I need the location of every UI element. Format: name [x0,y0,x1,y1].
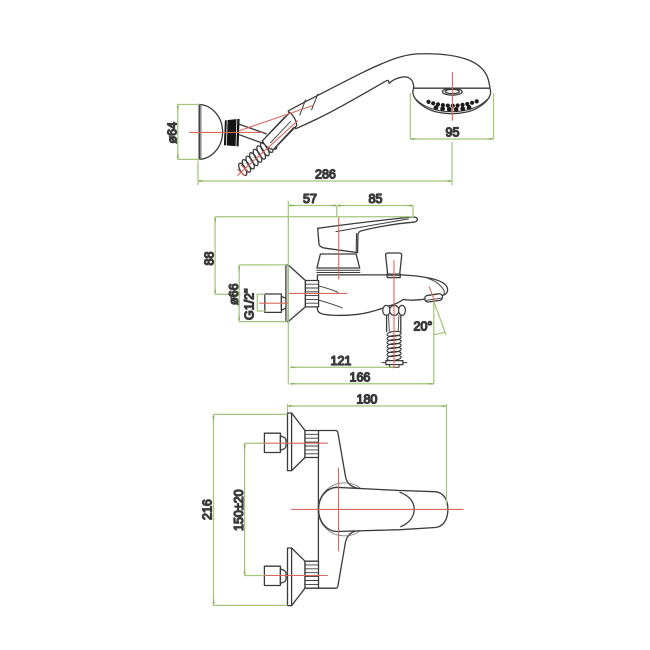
body trunk [318,431,380,589]
svg-text:166: 166 [350,371,371,385]
wall holder dome [199,105,222,160]
svg-text:85: 85 [369,192,383,206]
top check valve stub [264,433,286,452]
dimension 166 [291,383,432,385]
svg-text:150±20: 150±20 [232,489,246,531]
svg-text:ø64: ø64 [165,122,179,144]
20 degree angle [434,302,446,384]
dimension 88 [215,217,413,294]
cartridge axis [338,218,340,280]
conical hose nut [262,113,296,150]
handle neck in holder [240,124,267,143]
svg-text:ø66: ø66 [227,283,241,305]
bottom wall escutcheon [288,548,319,606]
shower handle and head outline [288,54,490,129]
head axis [451,73,453,121]
diverter knob [386,253,402,278]
dimension 216 [214,414,288,605]
svg-text:20°: 20° [414,320,433,334]
wall escutcheon (side) [286,265,319,322]
bottom inlet axis [260,575,327,577]
shower outlet hex nut [383,305,406,315]
body and spout [317,275,447,316]
svg-text:180: 180 [357,393,378,407]
cartridge collar [317,254,360,273]
bottom check valve stub [264,566,286,585]
head oval button [443,88,463,95]
lever tip divider [400,492,414,526]
svg-text:88: 88 [203,252,217,266]
aerator on spout tip [424,293,443,302]
G1/2 wall stub [265,294,286,312]
svg-text:57: 57 [303,192,317,206]
dimension 286 [198,143,452,185]
dimension ø66 [239,265,286,322]
top wall escutcheon [288,413,319,471]
red centerlines top view [190,73,453,176]
dimension 95 [410,94,493,140]
top inlet axis [260,442,327,444]
inlet axis [290,292,348,294]
svg-text:216: 216 [201,499,215,520]
handle axis [240,106,313,131]
body axis horizontal [292,508,464,510]
cartridge circle (behind) [318,483,371,536]
dimension 150±20 [245,443,264,575]
hose end fitting [382,361,407,368]
red centerlines middle view [260,218,435,368]
cartridge axis vertical [338,468,340,551]
nozzles [426,99,478,112]
lever handle (top view) [319,487,448,531]
G1/2 thread label [257,294,264,311]
holder axis [190,131,263,133]
svg-text:95: 95 [446,126,460,140]
hose spiral below outlet [387,331,402,362]
diverter / outlet axis [393,261,395,368]
svg-text:G1/2": G1/2" [242,288,256,320]
ribbed nut [305,281,318,307]
shower head face [413,88,491,114]
wall stub axis [260,302,289,304]
holder ring (black band) [224,119,240,147]
dimension 57 / 85 [288,202,413,385]
dimension 180 [288,405,447,506]
dimension 121 [291,366,393,368]
red centerlines bottom view [260,443,463,575]
lever handle [318,217,418,253]
body contour lines [318,286,338,293]
grip separator lines [300,94,318,115]
hose spiral [234,133,281,178]
dimension ø64 [178,105,199,160]
svg-text:121: 121 [331,354,352,368]
aerator axis [429,287,435,302]
outlet cylinder [387,315,401,331]
hose axis [238,121,298,176]
svg-text:286: 286 [315,168,336,182]
